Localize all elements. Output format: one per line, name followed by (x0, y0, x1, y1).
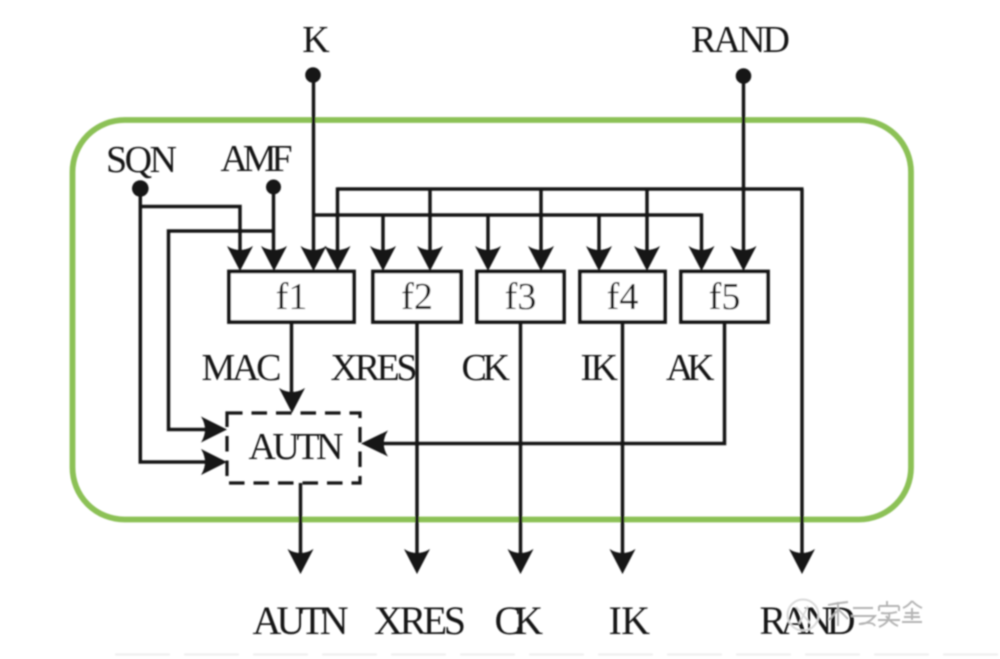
svg-text:K: K (302, 19, 330, 61)
watermark logo circle (788, 600, 819, 631)
arrowhead: K into f2 (370, 246, 396, 271)
svg-text:SQN: SQN (106, 139, 177, 181)
wire: K bus drop to f5 (700, 213, 704, 260)
arrowhead: CK output (508, 549, 534, 574)
wire: SQN branch into f1 (140, 207, 240, 261)
wire: RAND bus drop to f1 (336, 187, 340, 260)
wire: K vertical into f1 (312, 82, 316, 260)
svg-text:XRES: XRES (374, 598, 465, 643)
svg-text:f2: f2 (401, 276, 433, 318)
wire: f1 output MAC to AUTN (290, 322, 294, 402)
svg-text:f1: f1 (276, 276, 308, 318)
watermark text 禾云安全 (drawn strokes) (828, 601, 922, 627)
svg-text:AUTN: AUTN (253, 598, 348, 643)
node SQN terminal dot (132, 180, 149, 197)
svg-text:f3: f3 (505, 276, 537, 318)
arrowhead: RAND into f3 (528, 246, 554, 271)
svg-text:IK: IK (581, 347, 619, 389)
arrowhead: AMF into f1 (261, 246, 287, 271)
arrowhead: IK output (610, 549, 636, 574)
wire: f3 output CK (519, 322, 523, 562)
wire: f2 output XRES (415, 322, 419, 562)
wire: RAND bus drop to f4 (645, 189, 649, 260)
wire: AUTN output (299, 483, 303, 562)
wire: AMF branch to AUTN (169, 231, 274, 430)
arrowhead: RAND into f1 (325, 246, 351, 271)
wire: AMF vertical into f1 (272, 193, 276, 260)
svg-text:RAND: RAND (691, 19, 789, 61)
svg-text:XRES: XRES (331, 347, 417, 389)
wire: RAND distribution bus (338, 187, 804, 191)
function box f5 (681, 272, 768, 323)
function box f2 (373, 272, 461, 323)
wire: K bus drop to f4 (597, 215, 601, 260)
arrowhead: AUTN output (288, 549, 314, 574)
arrowhead: K into f3 (475, 246, 501, 271)
node RAND terminal dot (736, 68, 752, 84)
node K terminal dot (305, 67, 321, 83)
green enclosure box (73, 120, 912, 520)
wire: K bus drop to f2 (381, 215, 385, 260)
svg-text:MAC: MAC (202, 347, 281, 389)
wire: RAND vertical into f5 (742, 83, 746, 260)
arrowhead: AK into AUTN right (361, 431, 388, 457)
wire: K bus drop to f3 (486, 215, 490, 260)
arrowhead: AMF into AUTN left upper (201, 417, 227, 443)
wire: f5 output AK to AUTN (373, 322, 725, 444)
faint bottom separator line (115, 653, 1000, 655)
arrowhead: K into f4 (586, 246, 612, 271)
arrowhead: SQN into AUTN left lower (201, 449, 227, 475)
wire: RAND bus right end down to output (800, 189, 804, 562)
function box f4 (580, 272, 665, 323)
node AMF terminal dot (266, 180, 281, 195)
arrowhead: SQN into f1 (227, 246, 253, 271)
function box f1 (229, 272, 354, 323)
wire: f4 output IK (621, 322, 625, 562)
arrowhead: RAND into f4 (634, 246, 660, 271)
wire: SQN vertical down to AUTN (140, 195, 216, 462)
arrowhead: RAND into f5 (731, 246, 757, 271)
svg-text:AMF: AMF (221, 138, 292, 180)
svg-text:CK: CK (495, 598, 544, 643)
svg-text:IK: IK (609, 598, 651, 643)
arrowhead: K into f5 (689, 246, 715, 271)
wire: RAND bus drop to f3 (539, 189, 543, 260)
arrowhead: RAND output (789, 549, 815, 574)
svg-text:f5: f5 (709, 276, 741, 318)
svg-text:AUTN: AUTN (249, 426, 344, 468)
AUTN dashed box (227, 413, 360, 483)
arrowhead: MAC into AUTN top (279, 388, 305, 413)
arrowhead: XRES output (404, 549, 430, 574)
arrowhead: RAND into f2 (417, 246, 443, 271)
arrowhead: K into f1 (301, 246, 327, 271)
function box f3 (477, 272, 564, 323)
svg-text:CK: CK (462, 347, 511, 389)
wire: RAND bus drop to f2 (428, 189, 432, 260)
wire: K distribution bus (314, 213, 702, 217)
svg-text:f4: f4 (607, 276, 639, 318)
svg-text:AK: AK (666, 347, 715, 389)
